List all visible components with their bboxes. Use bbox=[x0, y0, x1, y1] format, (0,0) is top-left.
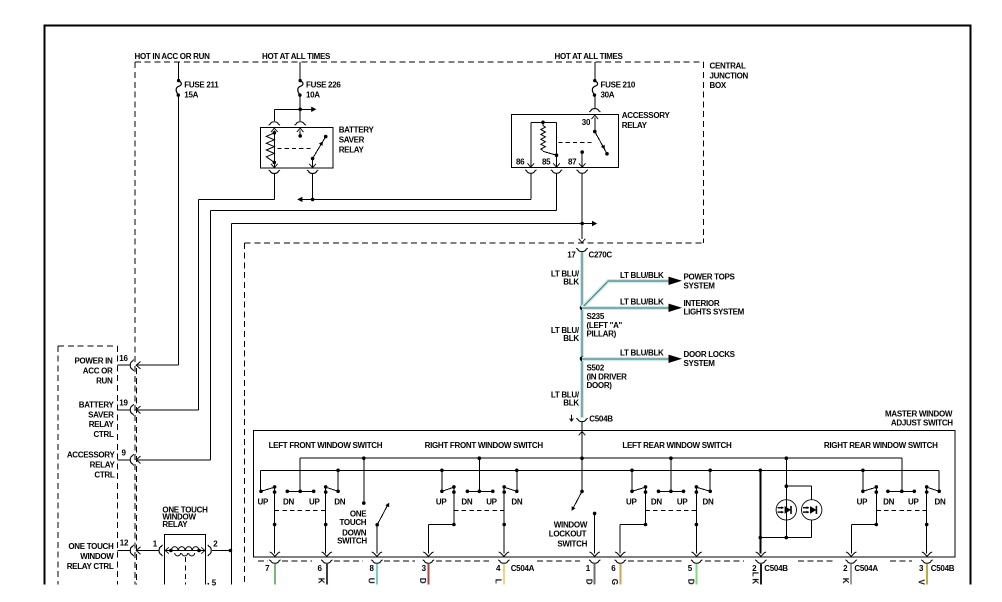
svg-text:PILLAR): PILLAR) bbox=[587, 330, 617, 339]
svg-text:15A: 15A bbox=[184, 90, 198, 99]
svg-text:UP: UP bbox=[626, 497, 637, 506]
svg-text:C504B: C504B bbox=[589, 415, 613, 424]
svg-text:UP: UP bbox=[677, 497, 688, 506]
accessory relay coil bbox=[527, 121, 592, 168]
fuse FUSE 226 10A bbox=[298, 62, 342, 99]
svg-text:SWITCH: SWITCH bbox=[557, 540, 587, 549]
svg-text:30A: 30A bbox=[601, 90, 615, 99]
svg-text:HOT AT ALL TIMES: HOT AT ALL TIMES bbox=[262, 52, 331, 61]
svg-text:C504A: C504A bbox=[854, 564, 878, 573]
svg-text:TOUCH: TOUCH bbox=[339, 518, 366, 527]
svg-text:16: 16 bbox=[119, 354, 128, 363]
accessory relay bottom cups bbox=[525, 170, 536, 173]
svg-text:UP: UP bbox=[908, 497, 919, 506]
wire LT BLU/BLK trunk C270C to C504B bbox=[580, 252, 584, 417]
label MASTER WINDOW ADJUST SWITCH bbox=[885, 409, 953, 427]
battery saver relay bottom pin cups bbox=[269, 170, 280, 173]
svg-text:BOX: BOX bbox=[710, 81, 727, 90]
svg-text:LEFT REAR WINDOW SWITCH: LEFT REAR WINDOW SWITCH bbox=[622, 441, 732, 450]
svg-text:ONE TOUCH: ONE TOUCH bbox=[68, 542, 114, 551]
svg-text:LIGHTS SYSTEM: LIGHTS SYSTEM bbox=[684, 308, 745, 317]
svg-text:SYSTEM: SYSTEM bbox=[684, 281, 716, 290]
connector C504B (top) bbox=[570, 415, 614, 424]
connector pin 6 bbox=[610, 552, 626, 585]
connector pin 4 C504A bbox=[494, 552, 535, 585]
wire fuse210 to accessory relay pin 30 bbox=[589, 96, 600, 112]
wire pin 12 to one touch window relay bbox=[118, 547, 159, 554]
svg-text:ACCESSORY: ACCESSORY bbox=[622, 111, 671, 120]
svg-text:RIGHT FRONT WINDOW SWITCH: RIGHT FRONT WINDOW SWITCH bbox=[425, 441, 544, 450]
battery saver relay coil bbox=[266, 128, 277, 168]
svg-text:SYSTEM: SYSTEM bbox=[684, 359, 716, 368]
connector pin 3 bbox=[418, 552, 434, 585]
svg-text:SAVER: SAVER bbox=[88, 410, 114, 419]
WINDOW LOCKOUT SWITCH bbox=[549, 490, 597, 554]
switch section: RIGHT FRONT WINDOW SWITCH bbox=[428, 458, 522, 553]
svg-text:10A: 10A bbox=[306, 90, 320, 99]
pin 19 connector bbox=[119, 399, 133, 416]
svg-text:UP: UP bbox=[258, 497, 269, 506]
svg-text:LT BLU/BLK: LT BLU/BLK bbox=[620, 349, 664, 358]
svg-text:BLK: BLK bbox=[563, 399, 579, 408]
svg-text:CENTRAL: CENTRAL bbox=[710, 62, 747, 71]
node BATTERY SAVER RELAY CTRL bbox=[79, 400, 115, 439]
node ONE TOUCH WINDOW RELAY CTRL bbox=[67, 542, 115, 571]
battery saver relay switch bbox=[278, 128, 328, 168]
svg-text:FUSE 211: FUSE 211 bbox=[184, 81, 219, 90]
svg-text:WINDOW: WINDOW bbox=[554, 521, 588, 530]
one touch relay pin 5 label bbox=[207, 579, 216, 588]
pin 16 connector bbox=[119, 354, 133, 371]
connector pin 5 bbox=[686, 552, 702, 585]
svg-text:S502: S502 bbox=[587, 363, 605, 372]
svg-text:RELAY CTRL: RELAY CTRL bbox=[67, 562, 114, 571]
pin 9 connector bbox=[122, 449, 134, 466]
fuse FUSE 211 15A bbox=[176, 62, 219, 99]
pin labels 86 85 87 bbox=[516, 158, 577, 167]
svg-text:DN: DN bbox=[461, 497, 472, 506]
svg-text:12: 12 bbox=[120, 538, 129, 547]
wire bus2 to pin 2 C504B bbox=[759, 470, 761, 553]
svg-text:BLK: BLK bbox=[563, 278, 579, 287]
svg-text:C270C: C270C bbox=[589, 251, 613, 260]
switch section: LEFT REAR WINDOW SWITCH bbox=[620, 458, 714, 553]
svg-text:BATTERY: BATTERY bbox=[79, 400, 115, 409]
svg-text:RELAY: RELAY bbox=[162, 520, 188, 529]
svg-text:C504B: C504B bbox=[764, 564, 788, 573]
wire branch to POWER TOPS SYSTEM bbox=[582, 271, 736, 308]
svg-text:CTRL: CTRL bbox=[94, 470, 115, 479]
central junction box boundary bbox=[135, 62, 704, 584]
svg-text:RELAY: RELAY bbox=[622, 121, 648, 130]
wire accessory pin 87 output bbox=[231, 173, 597, 584]
svg-text:UP: UP bbox=[857, 497, 868, 506]
svg-text:HOT IN ACC OR RUN: HOT IN ACC OR RUN bbox=[135, 52, 211, 61]
svg-text:LT BLU/BLK: LT BLU/BLK bbox=[620, 271, 664, 280]
svg-text:DN: DN bbox=[703, 497, 714, 506]
svg-text:G: G bbox=[610, 579, 619, 585]
svg-text:RIGHT REAR WINDOW SWITCH: RIGHT REAR WINDOW SWITCH bbox=[824, 441, 938, 450]
svg-text:DN: DN bbox=[883, 497, 894, 506]
wire accessory pin 85 to pin 9 bbox=[118, 173, 557, 463]
svg-text:DN: DN bbox=[651, 497, 662, 506]
wire branch to INTERIOR LIGHTS SYSTEM bbox=[582, 298, 745, 317]
svg-text:WINDOW: WINDOW bbox=[80, 552, 114, 561]
bus wire 1 (upper) bbox=[300, 456, 902, 491]
label: CENTRAL JUNCTION BOX bbox=[710, 62, 749, 90]
wire branch to DOOR LOCKS SYSTEM bbox=[582, 349, 736, 368]
svg-text:FUSE 226: FUSE 226 bbox=[306, 81, 341, 90]
svg-text:RELAY: RELAY bbox=[90, 461, 116, 470]
svg-text:D: D bbox=[686, 579, 695, 585]
svg-text:DN: DN bbox=[511, 497, 522, 506]
wire label LT BLU/BLK (lower) bbox=[551, 391, 580, 408]
svg-text:17: 17 bbox=[567, 251, 576, 260]
svg-text:RELAY: RELAY bbox=[89, 420, 115, 429]
connector dashed line C504 bbox=[258, 560, 912, 562]
svg-text:D: D bbox=[584, 579, 593, 585]
connector pin 1 bbox=[584, 552, 600, 585]
illumination lamp 1 bbox=[776, 458, 796, 539]
node ACCESSORY RELAY CTRL bbox=[67, 451, 116, 480]
svg-text:(LEFT "A": (LEFT "A" bbox=[587, 321, 623, 330]
connector pin 8 bbox=[367, 552, 383, 585]
svg-text:JUNCTION: JUNCTION bbox=[710, 71, 749, 80]
node POWER IN ACC OR RUN bbox=[74, 357, 113, 386]
svg-text:DN: DN bbox=[283, 497, 294, 506]
svg-text:FUSE 210: FUSE 210 bbox=[601, 81, 636, 90]
svg-text:RUN: RUN bbox=[96, 376, 113, 385]
relay: ONE TOUCH WINDOW RELAY bbox=[162, 505, 208, 584]
svg-text:UP: UP bbox=[436, 497, 447, 506]
svg-text:86: 86 bbox=[516, 158, 525, 167]
connector pin 6 bbox=[317, 552, 333, 585]
svg-text:L: L bbox=[494, 579, 503, 584]
svg-text:UP: UP bbox=[309, 497, 320, 506]
svg-text:C504B: C504B bbox=[931, 564, 955, 573]
svg-text:19: 19 bbox=[119, 399, 128, 408]
wire fuse211 to pin16 bbox=[118, 96, 179, 369]
svg-text:SAVER: SAVER bbox=[339, 136, 365, 145]
relay: ACCESSORY RELAY box bbox=[512, 115, 619, 168]
svg-text:K: K bbox=[751, 578, 760, 584]
svg-text:U: U bbox=[367, 578, 376, 584]
label BATTERY SAVER RELAY bbox=[339, 126, 375, 155]
switch section: RIGHT REAR WINDOW SWITCH bbox=[852, 458, 946, 553]
svg-text:K: K bbox=[317, 578, 326, 584]
wire label LT BLU/BLK (upper) bbox=[551, 270, 580, 287]
svg-text:POWER IN: POWER IN bbox=[74, 357, 113, 366]
svg-text:LEFT FRONT WINDOW SWITCH: LEFT FRONT WINDOW SWITCH bbox=[269, 441, 383, 450]
connector pin 3 C504B bbox=[917, 552, 955, 586]
svg-text:D: D bbox=[418, 578, 427, 584]
svg-text:LOCKOUT: LOCKOUT bbox=[549, 530, 587, 539]
pin 12 connector bbox=[120, 538, 134, 556]
svg-text:85: 85 bbox=[542, 158, 551, 167]
wire label LT BLU/BLK (middle) bbox=[551, 326, 580, 343]
switch assembly: MASTER WINDOW ADJUST SWITCH box bbox=[254, 431, 955, 557]
splice S235 (LEFT "A" PILLAR) bbox=[580, 306, 623, 339]
switch section: LEFT FRONT WINDOW SWITCH bbox=[258, 458, 346, 553]
svg-text:SWITCH: SWITCH bbox=[337, 537, 367, 546]
ONE TOUCH DOWN SWITCH bbox=[337, 458, 391, 553]
svg-text:87: 87 bbox=[568, 158, 577, 167]
svg-text:LT BLU/BLK: LT BLU/BLK bbox=[620, 298, 664, 307]
svg-text:UP: UP bbox=[486, 497, 497, 506]
connector pin 2 C504A bbox=[841, 552, 878, 585]
svg-text:INTERIOR: INTERIOR bbox=[684, 299, 720, 308]
svg-text:BLK: BLK bbox=[563, 334, 579, 343]
connector C270C pin 17 bbox=[567, 248, 612, 259]
svg-text:C504A: C504A bbox=[511, 564, 535, 573]
svg-text:BATTERY: BATTERY bbox=[339, 126, 375, 135]
bus wire 2 (lower) bbox=[261, 469, 940, 492]
svg-text:ACC OR: ACC OR bbox=[83, 367, 113, 376]
wire C504B into master switch box bbox=[579, 422, 586, 491]
illumination lamp 2 bbox=[759, 486, 822, 539]
svg-text:ACCESSORY: ACCESSORY bbox=[67, 451, 116, 460]
svg-text:DN: DN bbox=[935, 497, 946, 506]
svg-text:L: L bbox=[751, 572, 760, 577]
svg-text:S235: S235 bbox=[587, 312, 605, 321]
svg-text:CTRL: CTRL bbox=[93, 430, 114, 439]
relay: BATTERY SAVER RELAY box bbox=[261, 128, 334, 169]
connector pin 7 bbox=[265, 552, 280, 585]
svg-text:HOT AT ALL TIMES: HOT AT ALL TIMES bbox=[555, 52, 624, 61]
one touch relay coil bbox=[166, 547, 205, 556]
svg-text:RELAY: RELAY bbox=[339, 145, 365, 154]
fuse FUSE 210 30A bbox=[592, 62, 636, 99]
label ACCESSORY RELAY bbox=[622, 111, 671, 130]
accessory relay switch bbox=[591, 115, 608, 155]
svg-text:DOOR LOCKS: DOOR LOCKS bbox=[684, 350, 736, 359]
left module dashed box bbox=[58, 346, 117, 585]
svg-text:ADJUST SWITCH: ADJUST SWITCH bbox=[891, 419, 953, 428]
svg-text:K: K bbox=[841, 578, 850, 584]
one touch relay pin 2 bbox=[201, 540, 232, 557]
splice S502 (IN DRIVER DOOR) bbox=[580, 357, 627, 390]
wire fuse226 to battery saver relay pins bbox=[269, 96, 317, 125]
svg-text:30: 30 bbox=[582, 118, 591, 127]
wire battery saver switch output to accessory relay pin 86 bbox=[297, 173, 531, 202]
one touch relay pin 1 bbox=[153, 540, 169, 557]
accessory relay pin 87 bbox=[579, 150, 586, 167]
svg-text:DN: DN bbox=[334, 497, 345, 506]
svg-text:MASTER WINDOW: MASTER WINDOW bbox=[885, 409, 953, 418]
wire battery saver coil to pin 19 bbox=[118, 174, 275, 414]
svg-text:DOOR): DOOR) bbox=[587, 381, 613, 390]
connector pin 2 C504B bbox=[751, 552, 789, 585]
